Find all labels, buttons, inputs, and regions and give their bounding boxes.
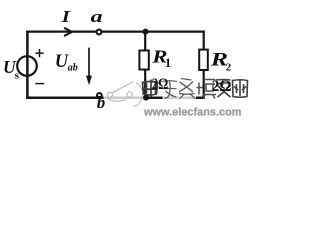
wire left vertical through source [26, 31, 29, 99]
glyph 1 [143, 80, 158, 98]
svg-text:www.elecfans.com: www.elecfans.com [143, 107, 241, 119]
wire bottom horizontal b-line [26, 96, 205, 99]
glyph 3 [179, 79, 195, 99]
glyph 4 [197, 80, 217, 99]
node b terminal [97, 93, 102, 98]
wire top horizontal a-line [26, 30, 205, 32]
svg-text:2: 2 [226, 61, 231, 73]
glyph 5 [216, 80, 231, 98]
svg-text:2Ω: 2Ω [212, 78, 232, 96]
wire right vertical lead of R2 [203, 31, 205, 99]
voltage source U_s circle [17, 56, 37, 76]
svg-text:ab: ab [68, 62, 78, 73]
svg-text:I: I [61, 8, 71, 27]
watermark outline glyphs (decorative) [143, 79, 248, 99]
svg-text:2Ω: 2Ω [152, 75, 168, 93]
glyph 2 [162, 81, 178, 98]
svg-text:b: b [97, 93, 106, 112]
resistor R1 box [139, 51, 148, 70]
junction dot top [143, 29, 149, 35]
junction dot bottom [143, 95, 149, 101]
node a terminal [97, 30, 102, 35]
svg-text:1: 1 [165, 56, 171, 70]
voltage arrow U_ab [88, 48, 90, 78]
glyph 6 [233, 80, 248, 98]
polarity plus [35, 49, 43, 57]
current arrow I on top wire [65, 28, 72, 35]
resistor R2 box [199, 50, 208, 70]
watermark logo white-out over bottom wire [104, 95, 145, 101]
watermark logo circles and orbit [107, 82, 143, 106]
wire R1 branch lead [144, 32, 146, 98]
polarity minus [36, 83, 45, 85]
svg-text:s: s [15, 69, 20, 81]
svg-text:a: a [91, 8, 103, 26]
watermark glyph white-out over bottom wire [163, 94, 197, 101]
